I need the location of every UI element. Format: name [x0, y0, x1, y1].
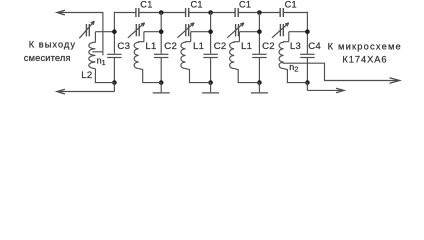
svg-text:n1: n1: [97, 55, 106, 67]
svg-text:L1: L1: [241, 41, 252, 52]
svg-text:L1: L1: [145, 41, 156, 52]
svg-text:C3: C3: [117, 41, 130, 52]
svg-text:C1: C1: [285, 0, 297, 10]
svg-text:смесителя: смесителя: [24, 53, 71, 63]
svg-text:L1: L1: [193, 41, 204, 52]
svg-text:К174ХА6: К174ХА6: [342, 54, 387, 64]
svg-text:C1: C1: [140, 0, 152, 10]
svg-text:C2: C2: [164, 41, 177, 52]
svg-text:L2: L2: [81, 70, 92, 81]
svg-text:L3: L3: [290, 41, 301, 52]
svg-text:C1: C1: [191, 0, 203, 10]
svg-text:К микросхеме: К микросхеме: [328, 41, 402, 51]
svg-text:К выходу: К выходу: [29, 39, 76, 49]
svg-text:C2: C2: [262, 41, 275, 52]
svg-text:C1: C1: [239, 0, 251, 10]
svg-text:n2: n2: [289, 62, 298, 73]
svg-text:C2: C2: [214, 41, 227, 52]
svg-text:C4: C4: [308, 41, 321, 52]
